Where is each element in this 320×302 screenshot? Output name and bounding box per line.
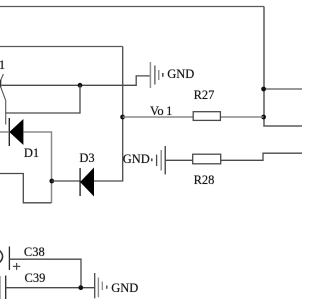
wire lower-left step (0, 174, 52, 203)
wire C39 lead to ground (6, 287, 95, 289)
resistor R27 (193, 112, 220, 121)
transistor partial symbol at left edge (1, 74, 4, 80)
diode D3 (80, 168, 94, 197)
label GND middle (123, 153, 150, 166)
capacitor C38 (0, 247, 9, 271)
ground GND middle symbol (mirrored) (152, 146, 165, 174)
label C39 (25, 272, 46, 285)
plus sign C38 (13, 263, 20, 270)
junction dot upper right (261, 87, 266, 92)
label GND bottom (111, 282, 138, 295)
ground GND bottom symbol (95, 273, 107, 298)
label D3 (79, 152, 94, 165)
junction dot lower right (261, 115, 266, 120)
label 1 (clipped reference) (0, 59, 5, 72)
capacitor C39 (0, 276, 6, 300)
resistor R28 (193, 154, 221, 164)
wire C38 lead (9, 259, 81, 288)
label Vo1 (150, 105, 172, 118)
diode D1 (9, 118, 23, 146)
wire Vo1 to R27 (123, 116, 193, 118)
junction dot bottom (78, 285, 83, 290)
label D1 (24, 147, 39, 160)
wire dot to D3 (52, 180, 80, 182)
wire main horizontal (2, 76, 151, 85)
wire junction down and left (6, 85, 80, 113)
wire second rail (0, 46, 123, 48)
junction dot D3 net (49, 179, 54, 184)
label R27 (194, 89, 215, 102)
label C38 (24, 246, 45, 259)
wire R28 to right edge with jog (221, 153, 302, 160)
wire vertical net Vo1 (94, 47, 123, 182)
label R28 (194, 174, 215, 187)
node output stub upper (264, 88, 302, 90)
label GND top (167, 68, 194, 81)
wire R27 to right bus (220, 116, 263, 118)
junction dot main wire (78, 83, 83, 88)
junction dot Vo1 (120, 115, 125, 120)
wire D1 net (gray) (0, 131, 9, 133)
wire right vertical bus (264, 7, 302, 127)
ground GND top symbol (150, 62, 162, 88)
wire GND to R28 (165, 159, 193, 161)
wire top rail (0, 6, 264, 8)
wire emitter lead down (5, 101, 7, 124)
